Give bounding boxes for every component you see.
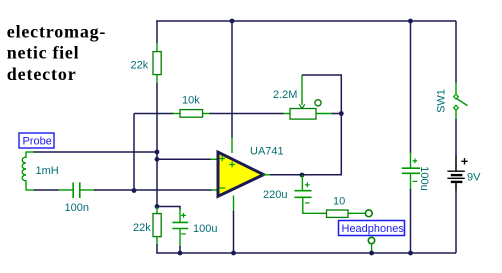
svg-text:10k: 10k [182, 95, 200, 107]
svg-text:10: 10 [333, 195, 345, 207]
junction dot R1b top y=206.5 [155, 204, 160, 209]
wire top supply rail [156, 20, 456, 22]
wire feedback loop (output up and over to wiper) [302, 75, 341, 175]
preset VR1 wiper shaft [301, 75, 303, 105]
battery B1 plus marker [461, 158, 467, 164]
preset VR1 wiper arrowhead [299, 104, 305, 108]
svg-text:Headphones: Headphones [342, 223, 405, 235]
capacitor C4 minus marker [413, 180, 418, 182]
resistor R4 22k (bottom, vertical) [153, 214, 161, 237]
junction dot output / 220u [300, 173, 305, 178]
wire V- down to ground rail [233, 211, 235, 253]
switch SW1 top contact [454, 94, 459, 99]
junction dot left vertical y=152 [155, 150, 160, 155]
junction dot jack on ground rail [369, 251, 374, 256]
capacitor C3 minus marker [181, 233, 186, 235]
resistor R2 10k [180, 110, 203, 118]
junction dot top rail / 100u right [408, 19, 413, 24]
pin stub coil top right [26, 151, 34, 153]
wire 10k net horizontal y=113.5 [134, 113, 174, 115]
node label Probe box [19, 133, 54, 148]
pin stub right of R3 to jack [348, 212, 366, 214]
svg-text:electromag-: electromag- [7, 21, 106, 41]
wire inverting input horizontal y=190 [94, 189, 212, 191]
svg-text:SW1: SW1 [436, 89, 448, 113]
capacitor C2 220u bottom plate [295, 196, 312, 198]
pin stub right of 10k [203, 113, 211, 115]
wire right vertical top (rail to 100u right) [410, 21, 412, 153]
preset VR1 2.2M body [290, 109, 316, 120]
preset VR1 spare terminal circle [315, 100, 321, 106]
pin stub V+ into op-amp [231, 137, 233, 153]
pin stub 220u top [301, 175, 303, 191]
wire preset right terminal to feedback vertical [332, 113, 342, 115]
svg-text:2.2M: 2.2M [273, 89, 297, 101]
junction dot x=134 on inverting net [132, 188, 137, 193]
op-amp U1 plus input marker [220, 156, 226, 161]
headphone jack terminal top circle [365, 210, 372, 217]
battery B1 plate long 1 [447, 170, 464, 172]
wire left vertical lower (R1 to node chain) [156, 83, 158, 207]
pin stub left of 100n [58, 189, 73, 191]
capacitor C4 plus marker [413, 159, 418, 164]
wire 10k to preset VR1 [210, 113, 285, 115]
junction dot feedback / preset right [339, 111, 344, 116]
pin stub op-amp inverting input [211, 189, 218, 191]
pin stub V- below op-amp [233, 196, 235, 212]
wire 100u right to ground rail [410, 189, 412, 253]
capacitor C4 100u bottom plate [402, 172, 420, 174]
wire left vertical upper (to 22k R1) [156, 21, 158, 44]
svg-text:netic fiel: netic fiel [7, 43, 79, 63]
pin stub switch top [455, 83, 457, 95]
title text [7, 21, 106, 84]
capacitor C2 plus marker [305, 182, 310, 187]
wire +input horizontal y=159.3 [157, 158, 212, 160]
switch SW1 bottom contact [454, 105, 459, 110]
wire battery to ground rail corner [455, 190, 457, 253]
pin stub op-amp output [263, 174, 271, 176]
junction dot 100u left on rail [178, 251, 183, 256]
pin stub 220u bottom and corner to 10 ohm [303, 197, 320, 213]
capacitor C1 100n right plate [79, 182, 81, 198]
pin stub 100u left top [179, 209, 181, 223]
svg-text:22k: 22k [131, 60, 149, 72]
wire corner to 100u left cap [157, 207, 180, 210]
battery B1 plate short 1 [451, 174, 463, 176]
pin stub left of R3 [319, 212, 327, 214]
svg-text:100u: 100u [193, 223, 217, 235]
svg-text:100u: 100u [418, 166, 430, 190]
pin stub above R1 [156, 43, 158, 52]
junction dot top rail / V+ [230, 19, 235, 24]
capacitor C4 100u top plate [402, 167, 420, 169]
svg-text:UA741: UA741 [250, 146, 284, 158]
capacitor C1 100n left plate [72, 182, 74, 198]
svg-text:1mH: 1mH [36, 165, 59, 177]
inductor L1 1mH coil [22, 152, 26, 191]
resistor R1 22k (top left, vertical) [153, 52, 161, 75]
capacitor C2 220u top plate [295, 190, 312, 192]
pin stub below R4 [156, 237, 158, 245]
switch SW1 lever [457, 99, 468, 106]
wire R4 bottom to ground rail corner [156, 244, 158, 253]
junction dot left vertical y=159.3 [155, 157, 160, 162]
svg-text:detector: detector [7, 64, 77, 84]
wire coil bottom to 100n cap [34, 189, 59, 191]
op-amp U1 minus input marker [220, 187, 225, 189]
battery B1 bottom lead [455, 183, 457, 191]
svg-text:Probe: Probe [23, 135, 52, 147]
op-amp U1 V+ marker [229, 162, 234, 167]
wire coil-top horizontal y=152 [33, 151, 157, 153]
pin stub coil bottom to 100n [26, 189, 35, 191]
battery B1 plate short 2 [451, 181, 463, 183]
capacitor C2 minus marker [305, 202, 310, 204]
headphone jack terminal bottom circle [368, 237, 374, 243]
wire ground rail bottom [156, 252, 456, 254]
wire switch to battery [455, 119, 457, 156]
pin stub 100u right bottom [410, 173, 412, 190]
wire switch branch top [455, 21, 457, 83]
capacitor C3 100u bottom plate [172, 228, 188, 230]
capacitor C3 100u top plate [172, 221, 188, 223]
pin stub jack bottom to rail [371, 244, 373, 253]
svg-text:22k: 22k [133, 222, 151, 234]
pin stub left of 10k [173, 113, 181, 115]
junction dot V- on rail [231, 251, 236, 256]
wire 100u left bottom to rail [179, 246, 181, 253]
pin stub switch bottom [455, 110, 457, 120]
wire output horizontal to feedback corner [270, 174, 342, 176]
wire V+ branch of op-amp [231, 21, 233, 138]
capacitor C3 plus marker [181, 213, 186, 218]
svg-text:100n: 100n [65, 202, 89, 214]
pin stub above R4 22k bottom [156, 207, 158, 214]
junction dot 100u right on rail [408, 251, 413, 256]
resistor R3 10 [327, 210, 349, 217]
op-amp U1 triangle [218, 152, 264, 196]
wire vertical x=134 (10k down to inverting input net) [133, 114, 135, 191]
svg-text:220u: 220u [263, 189, 287, 201]
svg-text:9V: 9V [467, 172, 481, 184]
pin stub 100u left bottom [179, 229, 181, 247]
battery B1 plate long 2 [447, 177, 464, 179]
pin stub op-amp non-inverting input [211, 158, 219, 160]
pin stub 100u right top [410, 152, 412, 168]
node label Headphones box [339, 221, 405, 236]
pin stub below R1 [156, 75, 158, 84]
battery B1 top lead [455, 156, 457, 172]
pin stub right of preset [316, 113, 333, 115]
pin stub right of 100n [80, 189, 95, 191]
pin stub left of preset [283, 113, 291, 115]
